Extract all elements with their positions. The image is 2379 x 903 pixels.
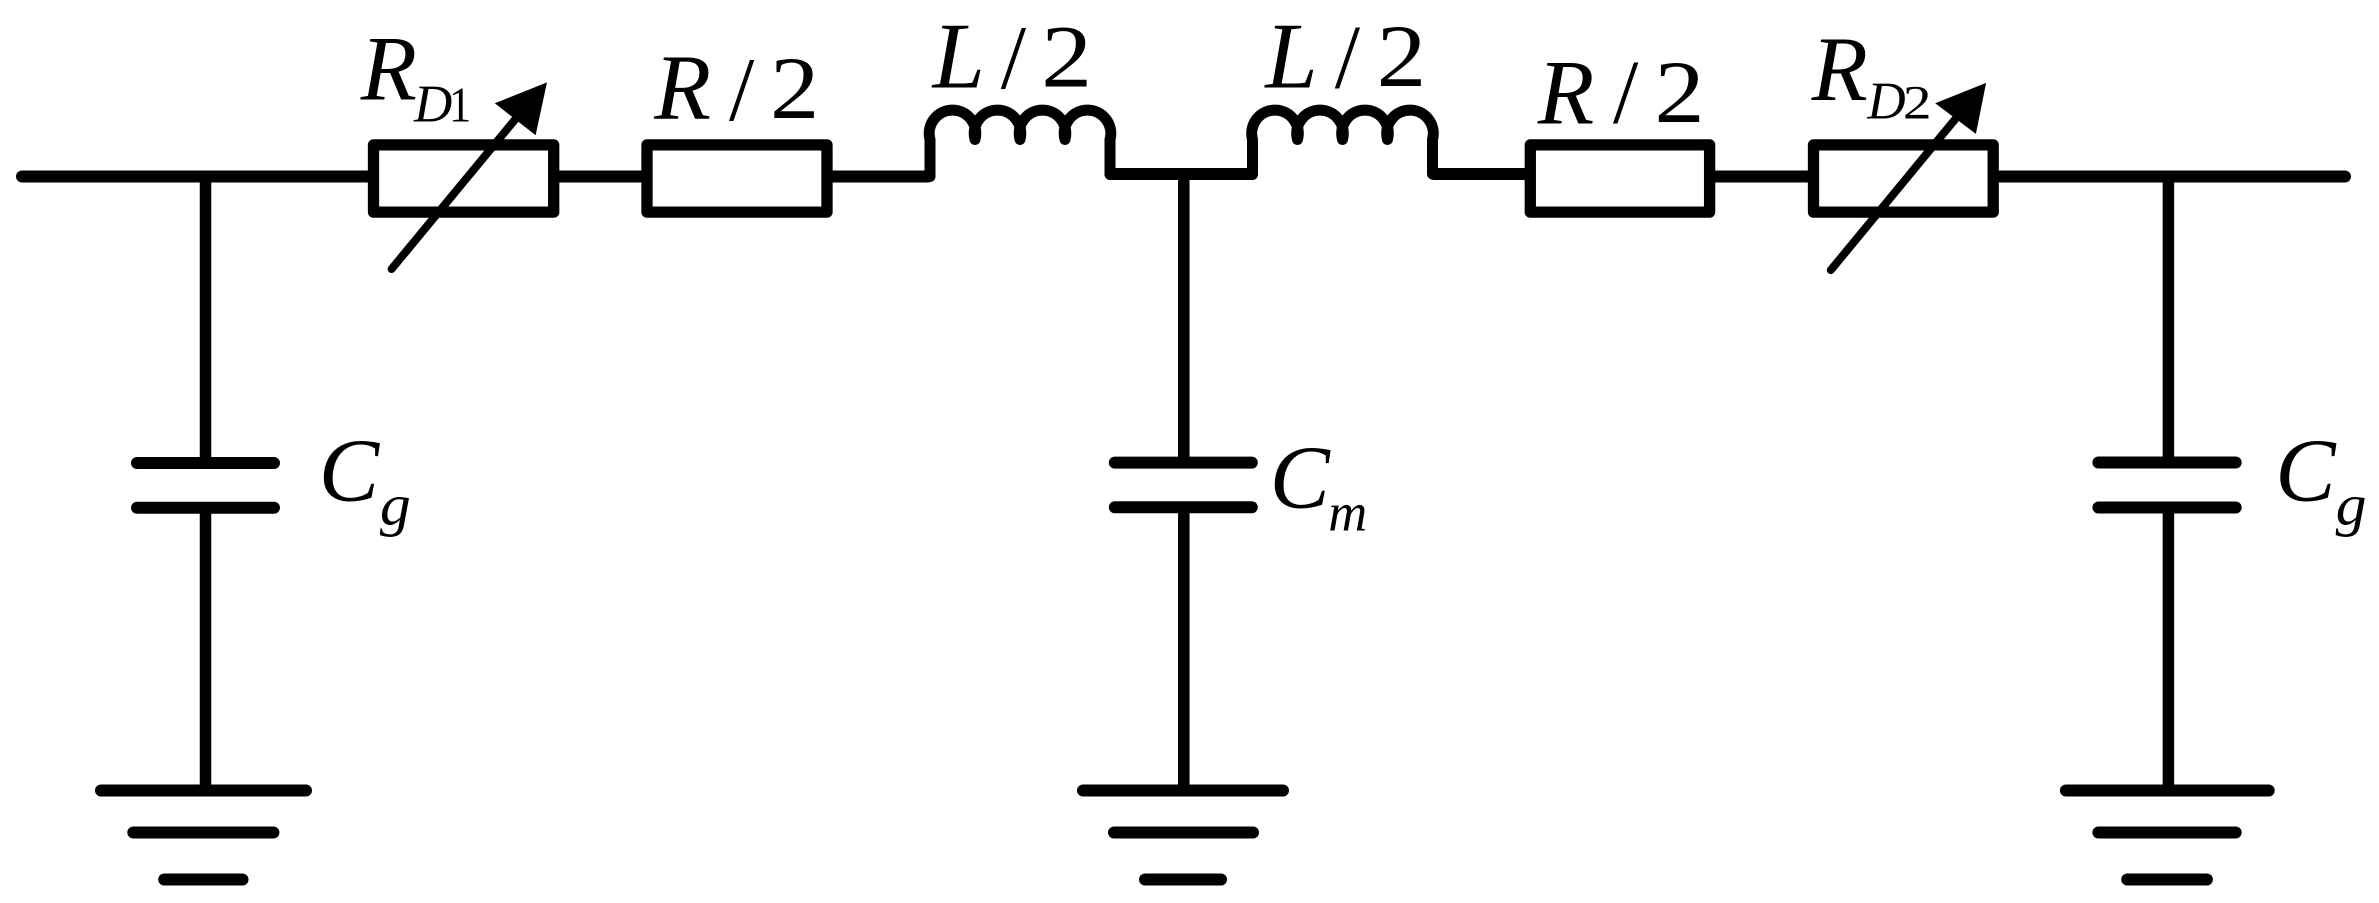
svg-text:2: 2 <box>1377 8 1427 106</box>
ground (middle) <box>1083 785 1283 797</box>
svg-text:2: 2 <box>770 40 819 138</box>
wire: main bus middle segment <box>1112 168 1251 180</box>
capacitor C_m plates <box>1115 457 1252 469</box>
ground (right) <box>2066 785 2269 797</box>
wire: right Cg to ground <box>2163 513 2175 785</box>
wire: main bus right segment <box>1709 171 2345 183</box>
arrow of variable resistor R_D1 <box>392 82 547 269</box>
arrow of variable resistor R_D2 <box>1831 83 1986 270</box>
svg-text:/: / <box>729 39 755 140</box>
svg-text:R: R <box>360 18 417 120</box>
svg-text:/: / <box>1335 7 1361 108</box>
resistor R_D2 box <box>1814 145 1994 212</box>
svg-text:C: C <box>1270 428 1331 527</box>
wire: left branch to Cg <box>200 177 212 458</box>
svg-text:R: R <box>1537 43 1595 145</box>
inductor L/2 (right) <box>1252 110 1434 174</box>
svg-text:g: g <box>2336 473 2367 538</box>
svg-text:D: D <box>413 75 452 133</box>
svg-text:2: 2 <box>1041 9 1092 107</box>
svg-text:L: L <box>1263 5 1317 109</box>
wire: inductor L/2 right to R/2 right box <box>1434 168 1530 180</box>
svg-text:/: / <box>1613 42 1639 143</box>
wire: middle branch to Cm <box>1178 174 1190 456</box>
resistor R/2 (left) box <box>647 145 827 212</box>
capacitor C_g (right) plates <box>2098 457 2235 469</box>
svg-text:2: 2 <box>1903 77 1932 130</box>
svg-text:L: L <box>931 5 985 109</box>
wire: left Cg to ground <box>200 513 212 785</box>
svg-text:R: R <box>1811 18 1868 120</box>
svg-text:D: D <box>1866 73 1905 131</box>
ground (left) <box>101 785 306 797</box>
svg-text:C: C <box>319 419 381 520</box>
inductor L/2 (left) <box>929 110 1111 176</box>
svg-text:/: / <box>1001 7 1027 108</box>
resistor R_D1 box <box>374 145 554 212</box>
svg-text:2: 2 <box>1654 44 1704 142</box>
resistor R/2 (right) box <box>1530 145 1709 212</box>
svg-text:1: 1 <box>449 76 471 132</box>
capacitor C_g (left) plates <box>137 457 274 469</box>
wire: right branch to Cg <box>2163 177 2175 457</box>
svg-text:C: C <box>2275 419 2337 520</box>
wire: Cm to ground <box>1178 513 1190 785</box>
wire: main bus left segment <box>22 171 928 183</box>
svg-text:R: R <box>653 37 711 140</box>
svg-text:g: g <box>380 473 411 538</box>
svg-text:m: m <box>1328 483 1367 543</box>
